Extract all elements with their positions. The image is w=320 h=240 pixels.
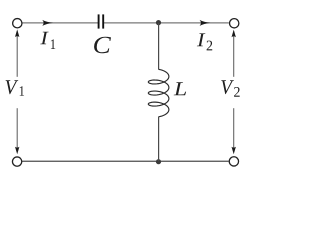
V1 arrow up head — [15, 29, 19, 37]
label V1 subscript 1 — [20, 86, 24, 96]
capacitor C1 left plate — [98, 14, 100, 28]
label C value — [94, 37, 111, 54]
wire top-left segment — [22, 22, 98, 24]
V2 arrow up shaft — [233, 32, 235, 77]
junction dot top node — [156, 20, 161, 25]
label V1 letter V — [6, 80, 19, 94]
V2 arrow down head — [232, 147, 236, 155]
arrow I1 on top wire — [42, 20, 53, 26]
V1 arrow down shaft — [16, 108, 18, 151]
capacitor C1 right plate — [102, 14, 104, 28]
junction dot bottom node — [156, 159, 161, 164]
inductor bottom lead wire — [158, 117, 160, 162]
label I1 letter I — [40, 32, 48, 45]
terminal circle top-left — [13, 19, 22, 28]
wire bottom — [22, 160, 229, 162]
inductor top lead wire — [158, 23, 160, 70]
arrow I2 on top wire — [200, 20, 211, 26]
label V2 letter V — [221, 80, 234, 94]
label V2 subscript 2 — [234, 87, 240, 97]
V2 arrow up head — [232, 30, 236, 38]
terminal circle bottom-left — [12, 157, 21, 166]
label I2 subscript 2 — [207, 41, 213, 51]
V2 arrow down shaft — [233, 108, 235, 151]
V1 arrow up shaft — [16, 32, 18, 77]
V1 arrow down head — [15, 147, 19, 155]
label I1 subscript 1 — [51, 39, 55, 49]
label I2 letter I — [197, 33, 205, 46]
wire top-right segment — [104, 22, 229, 24]
inductor L coil — [148, 69, 169, 117]
terminal circle bottom-right — [229, 157, 238, 166]
terminal circle top-right — [230, 19, 239, 28]
label L value — [174, 82, 186, 95]
